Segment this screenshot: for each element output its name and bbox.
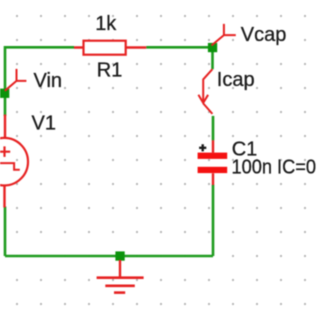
wire bottom horizontal (5, 255, 213, 258)
svg-text:100n IC=0: 100n IC=0 (232, 156, 317, 178)
probe Vin (5, 69, 27, 91)
wire left lower vertical (4, 207, 7, 257)
current probe Icap (198, 69, 212, 114)
svg-text:R1: R1 (97, 60, 123, 82)
svg-text:1k: 1k (95, 13, 117, 35)
svg-text:V1: V1 (32, 113, 56, 135)
capacitor C1 (198, 140, 228, 185)
probe Vcap (212, 24, 236, 46)
ground (97, 260, 144, 293)
voltage source V1 (0, 115, 28, 208)
node junction Vcap (208, 43, 217, 52)
node junction ground (115, 251, 124, 260)
wire left vertical (4, 46, 7, 116)
svg-text:Vin: Vin (34, 70, 63, 92)
wire top-right horizontal (146, 46, 212, 49)
wire junction to probe vertical (211, 47, 214, 69)
resistor R1 (74, 41, 146, 55)
wire cap to probe vertical (212, 116, 215, 140)
svg-text:Vcap: Vcap (241, 24, 287, 46)
wire top-left horizontal (5, 46, 74, 49)
wire right lower vertical (212, 185, 215, 256)
svg-text:Icap: Icap (217, 69, 255, 91)
node junction Vin (0, 89, 9, 98)
